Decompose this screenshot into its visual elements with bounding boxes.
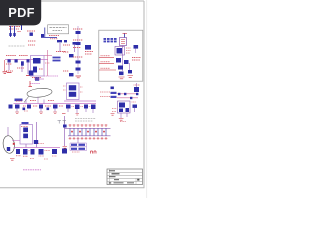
wire stubs up <box>17 99 55 112</box>
header band <box>65 127 111 129</box>
resistor R10 <box>9 105 58 109</box>
left wire <box>64 116 66 146</box>
test point T marks <box>58 121 67 124</box>
IC U4 cluster <box>118 101 131 113</box>
top transistor Q5 <box>134 87 139 92</box>
group D: left-mid power circuit <box>3 41 49 87</box>
wire <box>59 43 61 52</box>
wire stub <box>124 33 126 38</box>
diode D1 <box>11 26 15 37</box>
title text marks <box>109 170 140 183</box>
group L: bottom-left motor circuit <box>2 122 40 160</box>
red marks <box>45 62 50 64</box>
pin labels bottom <box>69 137 108 140</box>
bus wire <box>14 147 41 149</box>
gray annotation text T2 <box>75 119 96 122</box>
ground marks <box>15 111 57 114</box>
ground <box>10 159 34 161</box>
net labels <box>100 92 110 97</box>
wires <box>26 122 37 148</box>
ground <box>76 76 82 78</box>
red value labels <box>6 56 28 72</box>
components under bus <box>66 105 96 110</box>
wire pink <box>44 50 52 76</box>
ground <box>111 114 124 121</box>
pin dots mid <box>71 131 105 133</box>
vertical wire <box>77 26 79 74</box>
scroll hint line <box>146 0 148 198</box>
IC U2 small <box>85 45 91 50</box>
ellipse annotation E1 <box>24 87 52 103</box>
red labels <box>16 101 63 107</box>
gray annotation text T1 <box>9 45 26 47</box>
svg-text:PDF: PDF <box>8 5 35 20</box>
capacitor C9 <box>63 52 69 71</box>
net label <box>30 83 40 85</box>
resistor second row <box>23 108 50 111</box>
group O: bottom-mid block 2 <box>70 138 96 154</box>
wire drops <box>9 62 28 75</box>
bus wires <box>117 93 138 95</box>
net label row pink <box>44 75 58 77</box>
wire red left <box>4 60 6 71</box>
resistor R5 <box>56 45 70 52</box>
net label blue <box>53 57 61 62</box>
long horizontal bus <box>14 103 97 105</box>
transistor Q1 <box>41 28 57 38</box>
right sub-schematic box G1 <box>99 30 143 81</box>
capacitor C4 <box>73 42 78 45</box>
resistor labels <box>9 27 59 36</box>
IC U1 box <box>31 56 45 77</box>
inductor L1 <box>57 40 67 42</box>
capacitor C20 top right <box>134 45 139 49</box>
pins <box>70 128 106 136</box>
red marks <box>112 102 136 112</box>
transistor Q4 cluster <box>116 58 141 71</box>
IC U5 box <box>20 125 33 145</box>
wire stub to motor <box>7 127 9 136</box>
group F: capacitor column <box>73 26 93 78</box>
net label VDD blue <box>15 99 23 102</box>
group M: pin header J3 <box>58 114 111 149</box>
wire vertical main <box>122 46 124 72</box>
group C: small circuit right of note box <box>56 40 77 52</box>
connector J2 <box>120 38 127 46</box>
pin labels top <box>69 124 108 127</box>
red trio <box>91 151 97 154</box>
capacitor C11 <box>73 29 83 57</box>
bus wire <box>5 59 48 61</box>
wire drops <box>121 113 127 118</box>
header text blue <box>104 38 117 42</box>
wire to right <box>34 78 44 80</box>
pink net label text <box>23 169 41 171</box>
capacitor C1 <box>21 25 44 37</box>
motor M1 <box>2 135 16 154</box>
component row on bus <box>8 59 30 65</box>
input wires red <box>99 56 116 70</box>
ground symbols <box>119 76 134 79</box>
title block <box>107 169 143 185</box>
transistor Q3 cluster <box>115 47 131 56</box>
PDF badge <box>0 0 41 25</box>
ground <box>3 72 31 76</box>
capacitor right <box>133 105 138 108</box>
node A <box>111 87 114 90</box>
capacitor C7 below box <box>29 71 39 81</box>
components on bus <box>16 149 35 155</box>
group N: bottom-mid circuit <box>38 144 67 160</box>
bottom parts <box>119 70 132 75</box>
group I: component row under ellipse <box>9 99 64 114</box>
group K: right-bottom circuit <box>100 83 140 122</box>
ground red <box>29 81 33 87</box>
transistor Q7 <box>34 140 38 144</box>
resistor labels upper <box>28 41 36 45</box>
note box N1 (top) <box>48 25 69 34</box>
nodes on bus <box>118 93 138 99</box>
group E: caps and net labels mid <box>44 50 74 76</box>
group J: IC U3 mid block <box>63 83 96 115</box>
group A: top-left circuit under badge <box>9 25 59 39</box>
